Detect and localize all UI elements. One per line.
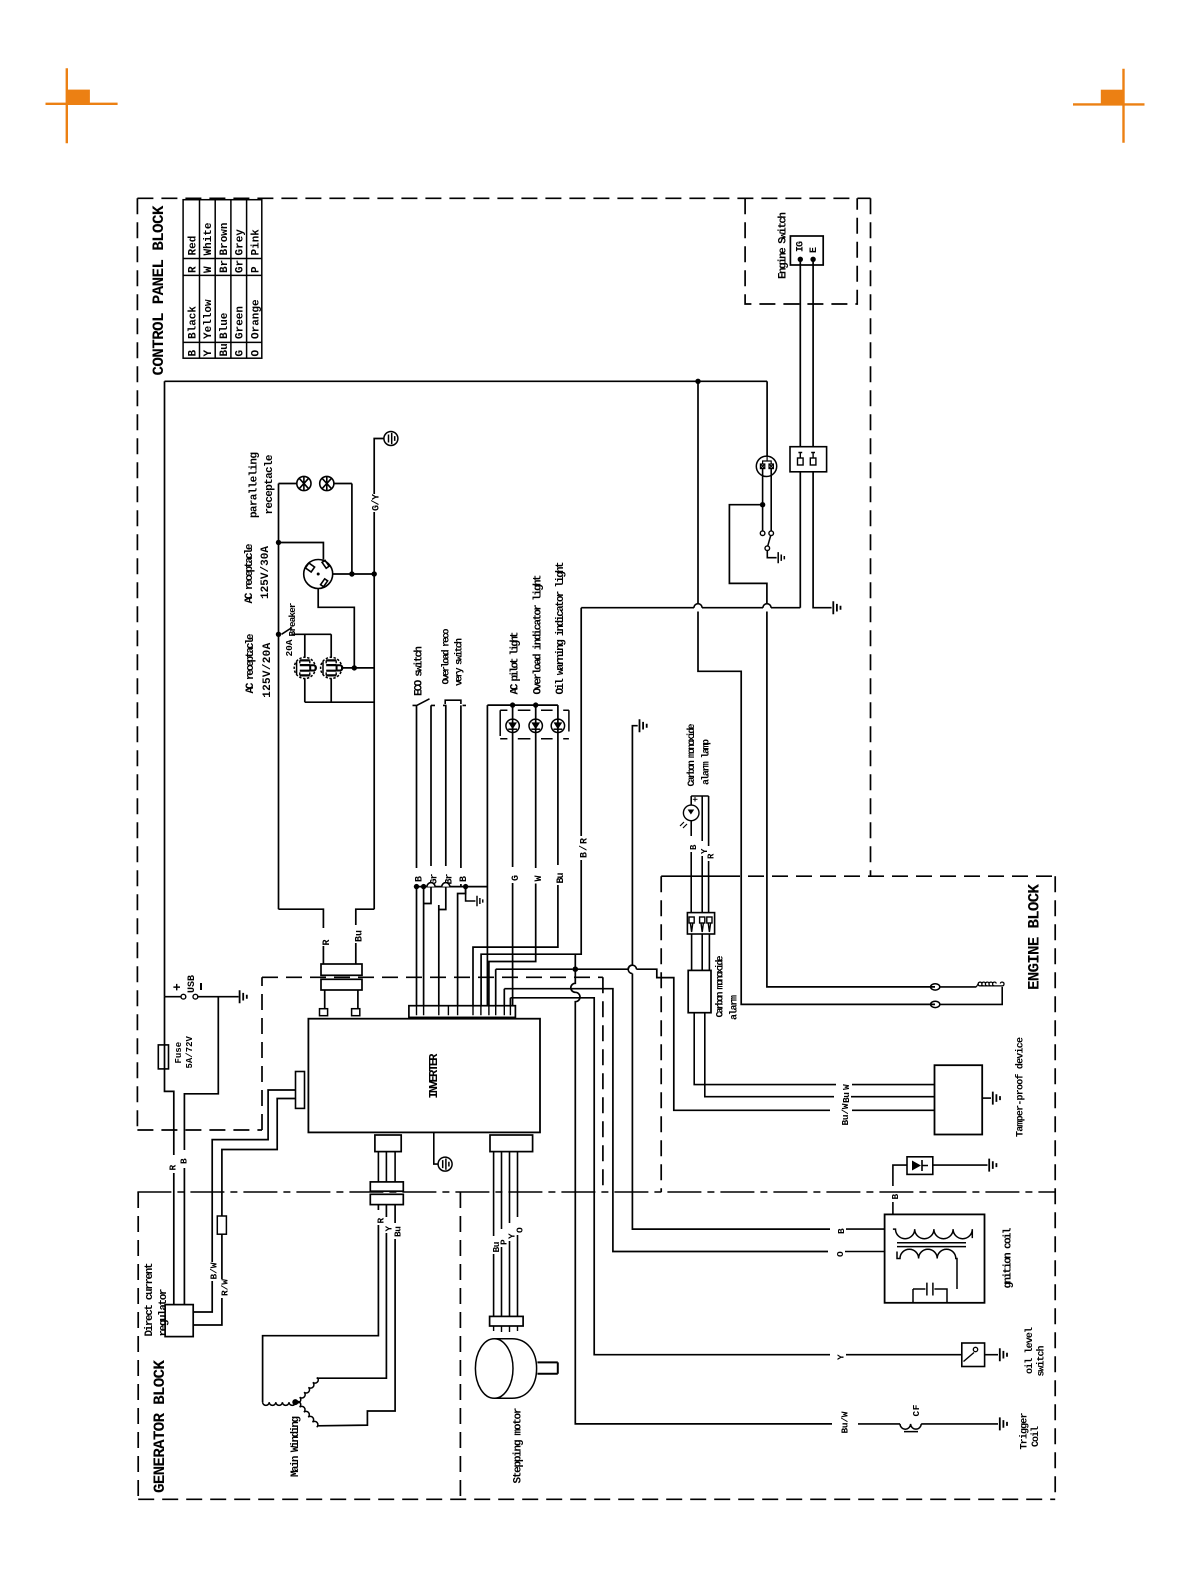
wire: stepper O lead	[517, 1152, 519, 1217]
svg-text:Yellow: Yellow	[203, 299, 215, 339]
svg-text:ENGINE BLOCK: ENGINE BLOCK	[1026, 884, 1044, 990]
wire: Bu lamp wire	[557, 705, 559, 865]
wire: overload B to bus and jog into pin	[458, 884, 466, 1006]
switch blade	[768, 536, 771, 546]
wire: W jog into pin	[489, 884, 536, 1006]
control panel block bottom-right drop border	[602, 977, 604, 1192]
wire: rail left drop to bus	[486, 705, 488, 1006]
wire: Y lead to oil level switch	[594, 1352, 830, 1355]
wire: paralleling right terminal drop	[351, 484, 353, 572]
hop: stop line over second riser	[763, 604, 771, 608]
svg-text:P: P	[250, 266, 262, 273]
wire: G into pin	[512, 883, 514, 1006]
svg-text:125V/20A: 125V/20A	[262, 642, 274, 697]
switch contact right	[769, 531, 774, 536]
control panel block right border	[870, 198, 872, 876]
CO 3-pin connector	[687, 913, 714, 934]
paralleling receptacle terminal left	[297, 476, 311, 490]
ground at oil level switch	[1000, 1348, 1007, 1361]
wire: lamp feed drop	[698, 381, 935, 1004]
wire: ECO switch left lead (B)	[416, 705, 418, 868]
svg-text:Bu/W: Bu/W	[840, 1103, 851, 1125]
svg-text:Green: Green	[235, 306, 247, 339]
svg-text:R: R	[707, 853, 717, 859]
inverter box	[308, 1019, 540, 1133]
wire: top rail corner to relay lamp	[766, 381, 768, 456]
svg-text:Blue: Blue	[219, 312, 231, 339]
wire: Bu winding lead	[394, 1205, 396, 1223]
table cell texts	[188, 222, 263, 356]
ground circle for G/Y	[384, 432, 398, 446]
node: E terminal	[810, 257, 815, 262]
wire: inner top rail	[165, 380, 768, 382]
wire: Bu/W into trigger coil	[858, 1423, 900, 1425]
svg-text:alarm: alarm	[729, 995, 741, 1020]
svg-text:Bu: Bu	[219, 343, 231, 356]
pin square left	[320, 1009, 328, 1016]
ignition coil box	[885, 1214, 985, 1302]
wire: Y winding lead lower	[317, 1233, 387, 1378]
svg-text:Pink: Pink	[250, 229, 262, 256]
connector pin 3	[707, 917, 712, 932]
svg-text:Bu: Bu	[841, 1092, 852, 1103]
wire: R/W riser to inverter tab	[222, 1099, 296, 1280]
svg-text:W: W	[841, 1084, 852, 1090]
svg-text:very switch: very switch	[454, 638, 466, 686]
svg-text:Orange: Orange	[250, 299, 262, 339]
wire: Bu winding lead lower	[318, 1239, 396, 1426]
svg-text:+: +	[170, 983, 185, 991]
ground at E	[833, 601, 840, 614]
connector pin IG	[798, 452, 804, 465]
svg-text:Main Winding: Main Winding	[290, 1416, 302, 1477]
wire: 30A right to neutral bus	[333, 573, 375, 575]
wire: lamp B lead lower	[690, 852, 692, 913]
connector pin 1	[689, 917, 694, 932]
node: bus at Gr pin wire	[421, 884, 426, 889]
wire: lamp Y lead lower	[701, 856, 703, 913]
svg-text:B: B	[836, 1228, 847, 1234]
wire: relay contact right	[770, 469, 772, 531]
hop: bus over Br wire	[442, 883, 450, 887]
svg-text:USB: USB	[187, 975, 198, 993]
inline connector lower half (R/Bu)	[321, 979, 362, 990]
wire: ECO switch right lead (Gr)	[430, 705, 432, 866]
svg-text:Red: Red	[188, 236, 200, 256]
wire: pin riser to stop-line junction	[496, 969, 573, 1006]
svg-text:White: White	[203, 222, 215, 255]
svg-text:Bu: Bu	[392, 1226, 403, 1237]
relay lamp circle	[756, 456, 776, 476]
svg-text:B: B	[179, 1158, 190, 1164]
svg-text:Overload reco: Overload reco	[441, 629, 453, 685]
bullet connector lower	[931, 1001, 940, 1007]
wire: Y pin wire east and down	[510, 998, 594, 1352]
node: bypass tap	[760, 502, 765, 507]
svg-text:R: R	[168, 1165, 179, 1171]
svg-text:Y: Y	[203, 350, 215, 357]
svg-text:Bu: Bu	[556, 873, 567, 884]
svg-text:W: W	[534, 875, 545, 881]
wire: B/W riser to inverter tab	[212, 1090, 295, 1262]
bottom border shared by generator and engine blocks	[138, 1498, 1055, 1500]
svg-text:gnition coil: gnition coil	[1003, 1227, 1015, 1288]
node: 30A joins neutral bus	[372, 571, 377, 576]
svg-text:AC receptacle: AC receptacle	[244, 543, 256, 603]
svg-text:O: O	[250, 350, 262, 357]
svg-text:receptacle: receptacle	[264, 454, 276, 514]
wire: connector pins to motor	[494, 1326, 518, 1332]
stepping motor 4-pin connector	[490, 1316, 523, 1326]
svg-text:B/W: B/W	[209, 1262, 220, 1279]
table frame	[183, 200, 262, 359]
ignition coil secondary winding	[897, 1249, 957, 1289]
svg-text:+: +	[691, 797, 701, 802]
wire: Y winding lead	[385, 1205, 387, 1217]
wire: paralleling receptacle leads	[279, 483, 352, 485]
ignition coil primary winding	[893, 1229, 972, 1239]
wire: B lead into regulator	[183, 1168, 185, 1305]
svg-text:R: R	[188, 266, 200, 273]
control panel block notch bottom border	[137, 1129, 262, 1131]
LED: AC pilot light	[506, 719, 519, 732]
wire: breaker to receptacle feeds	[293, 634, 332, 657]
coil squiggle	[976, 982, 1004, 987]
svg-text:Bu: Bu	[354, 930, 365, 942]
wire: lamp R lead lower	[708, 861, 710, 913]
svg-text:Direct current: Direct current	[144, 1263, 156, 1337]
generator block right border	[459, 1192, 461, 1499]
control panel block notch right border	[261, 977, 263, 1130]
oil level switch contact	[973, 1347, 977, 1351]
svg-text:Br: Br	[219, 260, 231, 273]
svg-text:oil level: oil level	[1024, 1327, 1036, 1374]
wire: B/R riser lower, jog into pin	[481, 860, 581, 1006]
svg-text:Coil: Coil	[1030, 1426, 1042, 1447]
black bus with ground	[417, 886, 488, 888]
main winding left coil	[263, 1402, 296, 1405]
table column lines	[183, 259, 262, 343]
bullet connector upper	[931, 984, 940, 990]
generator block left border	[137, 1192, 139, 1499]
svg-text:B: B	[890, 1194, 901, 1200]
svg-text:B: B	[459, 876, 470, 882]
hop: B wire over stop-line extension	[628, 965, 632, 974]
wire: B lamp wire from ground to ignition coil	[632, 726, 830, 1229]
svg-text:R: R	[376, 1218, 387, 1224]
switch pivot contact	[765, 546, 770, 551]
wire: O lead to ignition coil	[613, 1249, 828, 1252]
paralleling receptacle terminal right	[320, 476, 334, 490]
ignition capacitor	[913, 1283, 947, 1303]
svg-text:alarm lamp: alarm lamp	[701, 739, 713, 785]
wire: USB + feed	[165, 996, 182, 998]
hop: Bu/W line over B lamp wire	[628, 965, 636, 969]
direct current regulator box	[165, 1305, 193, 1337]
wire: lamp R lead	[708, 796, 710, 846]
table row lines	[200, 200, 247, 359]
registration mark right: orange square	[1101, 90, 1124, 105]
inline connector lower half (winding)	[370, 1194, 403, 1204]
ECO switch symbol	[413, 699, 436, 706]
wire: tamper-proof ground lead	[982, 1097, 991, 1099]
wire: 30A bottom lead	[318, 589, 354, 668]
svg-text:regulator: regulator	[158, 1289, 170, 1337]
diode box	[907, 1157, 933, 1175]
svg-text:Y: Y	[836, 1354, 847, 1360]
svg-text:W: W	[203, 266, 215, 273]
node: IG terminal	[798, 257, 803, 262]
overload switch bridge contact	[443, 700, 466, 705]
wire: regulator to R/W riser	[193, 1298, 222, 1325]
node: bus at ECO B	[414, 884, 419, 889]
wire: G/Y lead	[374, 439, 384, 495]
hop: bus over Gr wire	[427, 883, 435, 887]
diode symbol	[912, 1161, 921, 1171]
control panel block top border	[137, 197, 870, 199]
svg-text:Trigger: Trigger	[1019, 1413, 1031, 1450]
node: hot bus at breaker	[276, 632, 281, 637]
wire: bypass loop	[729, 505, 935, 987]
inverter bottom-right connector block	[490, 1135, 533, 1152]
wire: Bu jog into pin	[473, 885, 558, 1006]
wire: outlets bottom bus	[305, 679, 374, 703]
svg-text:B: B	[188, 350, 200, 357]
wire: stepper Bu lead	[493, 1152, 495, 1236]
node: paralleling drop joins	[349, 571, 354, 576]
hop: stop line over first riser	[694, 604, 702, 608]
lamp frame around lights	[500, 710, 569, 739]
wire: junction down with weave	[571, 969, 580, 1420]
svg-text:B: B	[689, 844, 699, 850]
node: overload light tap	[533, 702, 538, 707]
main winding star node	[292, 1399, 298, 1405]
wire: neutral bus right (Bu / G-Y riser)	[373, 512, 375, 909]
svg-text:Carbon monoxide: Carbon monoxide	[715, 956, 727, 1018]
wire: switch to ground	[985, 1354, 998, 1356]
wire: USB - lead to ground and down	[184, 997, 238, 1150]
indicator light top rail	[487, 704, 558, 706]
wire: stepper P lead lower	[501, 1247, 503, 1316]
wire: Bu/W lead to trigger coil	[575, 1420, 832, 1424]
engine block right border	[1054, 876, 1056, 1499]
svg-text:Fuse: Fuse	[174, 1042, 184, 1064]
wire: ECO B into pin	[416, 884, 418, 1006]
inverter bottom-left connector block	[375, 1135, 401, 1152]
node: link joins neutral bus	[352, 665, 357, 670]
svg-text:Y: Y	[700, 848, 710, 854]
inverter top multi-pin connector	[409, 1006, 516, 1018]
wire: module W lead to tamper-proof	[694, 1013, 836, 1085]
wire: connector to pin squares	[325, 990, 358, 1009]
svg-text:O: O	[515, 1227, 526, 1233]
ground circle at inverter	[438, 1157, 452, 1171]
wire: Y lead into switch box	[846, 1354, 962, 1356]
wire: B lead into ignition coil	[846, 1228, 885, 1230]
wire: R/Bu leads into connector	[323, 943, 355, 964]
wire: module Bu lead to tamper-proof	[705, 1013, 834, 1097]
svg-text:G: G	[511, 875, 522, 881]
ground at USB minus	[240, 990, 247, 1003]
pin square right	[352, 1009, 360, 1016]
USB terminal -	[193, 994, 198, 999]
svg-text:20A: 20A	[284, 639, 295, 656]
oil level switch blade	[964, 1353, 975, 1362]
engine block top border	[724, 875, 1055, 877]
wire: Gr jog into pin	[424, 886, 431, 1006]
svg-text:G/Y: G/Y	[371, 494, 383, 511]
inline connector upper half (winding)	[370, 1182, 403, 1191]
wire: 30A receptacle feed	[279, 543, 324, 560]
node: top rail to lamp feed	[695, 379, 700, 384]
wire: diode branch to diode box	[893, 1165, 907, 1186]
svg-text:CF: CF	[911, 1404, 922, 1416]
carbon monoxide alarm module	[688, 970, 711, 1012]
main winding upper-right coil	[295, 1377, 319, 1404]
engine switch dashed enclosure	[745, 198, 857, 304]
wire: switch to ground	[767, 551, 776, 558]
wire: stepper Y lead lower	[509, 1241, 511, 1316]
wire: neutral bus bottom corner to Bu drop	[356, 909, 374, 925]
stepping motor body	[494, 1339, 536, 1399]
svg-text:Overload indicator light: Overload indicator light	[532, 575, 544, 695]
connector pin E	[810, 452, 816, 465]
svg-text:R: R	[322, 939, 333, 945]
wire: Br jog into pin	[439, 886, 446, 1006]
ground at tamper-proof	[993, 1092, 1000, 1105]
node: hot bus to 30A feed	[276, 540, 281, 545]
wire: junction east to engine block (Bu/W)	[578, 969, 830, 1110]
wire: lamp B lead	[690, 796, 692, 836]
wire: O pin wire east and down	[504, 989, 613, 1249]
wire: regulator to B/W riser	[193, 1281, 212, 1312]
svg-text:IG: IG	[796, 241, 807, 252]
stepping motor end cap	[475, 1339, 513, 1399]
wire: upper bullet to coil loop	[940, 986, 977, 988]
svg-text:switch: switch	[1036, 1346, 1048, 1377]
wire: stepper O lead lower	[517, 1235, 519, 1316]
wire: IG lead	[799, 259, 801, 607]
registration mark left: orange square	[67, 90, 90, 104]
wire: overload switch right lead (B)	[460, 705, 462, 868]
svg-text:125V/30A: 125V/30A	[260, 546, 272, 599]
wire: O lead into ignition coil	[845, 1251, 885, 1253]
svg-text:Stepping motor: Stepping motor	[513, 1408, 525, 1484]
node: bus at overload B	[463, 884, 468, 889]
svg-text:5A/72V: 5A/72V	[185, 1035, 195, 1068]
control panel block bottom border	[262, 976, 603, 978]
svg-text:Tamper-proof device: Tamper-proof device	[1015, 1037, 1027, 1137]
ignition coil core	[897, 1243, 966, 1247]
svg-text:GENERATOR BLOCK: GENERATOR BLOCK	[151, 1360, 169, 1493]
svg-text:Carbon monoxide: Carbon monoxide	[686, 724, 698, 787]
connector pin 2	[700, 917, 705, 932]
ground at relay switch	[778, 552, 784, 563]
node: AC pilot light tap	[510, 702, 515, 707]
wire: trigger coil to ground	[921, 1423, 998, 1425]
svg-text:B/R: B/R	[578, 838, 590, 858]
engine block left border	[660, 876, 662, 1192]
svg-text:B: B	[415, 876, 426, 882]
chain separator line between blocks	[137, 1191, 1055, 1193]
AC receptacle 125V/30A body	[304, 560, 333, 589]
wire: Bu/W lead into tamper-proof	[852, 1109, 935, 1111]
wire: right outlet link to neutral bus	[342, 667, 374, 669]
wire: left rail down to USB +	[164, 381, 166, 996]
svg-text:E: E	[809, 247, 820, 253]
ground at bus	[477, 896, 483, 906]
wire: winding leads to inline connector	[378, 1152, 395, 1182]
wire: connector to CO module	[692, 934, 710, 970]
wire: stepper Y lead	[509, 1152, 511, 1223]
wire: fuse branch below +	[165, 997, 174, 1155]
breaker blade	[282, 628, 293, 635]
LED: overload indicator light	[529, 719, 542, 732]
inverter left tab connector	[296, 1072, 305, 1109]
wire: R lead into regulator	[173, 1173, 175, 1305]
svg-text:Oil warning indicator light: Oil warning indicator light	[555, 562, 567, 695]
wire: Bu lead into tamper-proof	[851, 1096, 935, 1098]
svg-text:Bu/W: Bu/W	[840, 1411, 851, 1433]
svg-text:O: O	[835, 1251, 846, 1257]
trigger coil symbol	[900, 1424, 921, 1432]
registration mark left: cross	[46, 68, 118, 143]
svg-text:Grey: Grey	[235, 229, 247, 256]
wire: W lamp wire	[535, 705, 537, 868]
registration mark right: cross	[1073, 69, 1145, 143]
wire: junction tap up to B/R	[574, 954, 576, 969]
svg-text:CONTROL PANEL BLOCK: CONTROL PANEL BLOCK	[150, 205, 168, 375]
CO alarm lamp	[680, 805, 699, 828]
control panel block left border	[136, 198, 138, 1130]
wire: inverter bottom ground lead	[434, 1132, 438, 1164]
CO lamp frame	[691, 795, 708, 797]
stepping motor shaft	[537, 1362, 557, 1373]
engine switch connector box	[790, 447, 827, 472]
ground at B lamp wire top	[640, 719, 647, 732]
wire: G lamp wire	[512, 705, 514, 867]
svg-text:Engine Switch: Engine Switch	[778, 212, 790, 279]
wire: relay contact left	[762, 469, 764, 531]
ground at diode	[989, 1159, 996, 1172]
svg-text:Breaker: Breaker	[287, 602, 298, 636]
wire: hot bus bottom corner to R drop	[279, 909, 324, 928]
wire: bus ground branch	[466, 887, 476, 901]
main winding lower-right coil	[295, 1400, 319, 1427]
wire: W lead into tamper-proof	[852, 1084, 935, 1086]
svg-text:R/W: R/W	[220, 1279, 231, 1296]
svg-text:AC receptacle: AC receptacle	[245, 633, 257, 693]
node: stop line junction	[573, 966, 579, 972]
wire: hot bus left (R)	[278, 484, 280, 910]
ground at trigger coil	[1000, 1417, 1007, 1430]
connector on R/W wire	[217, 1216, 226, 1234]
connector pin stubs	[417, 1006, 511, 1016]
wire: stepper Bu lead lower	[493, 1254, 495, 1316]
switch contact left	[760, 531, 765, 536]
LED: oil warning indicator light	[551, 719, 564, 732]
wire: stop line to IG	[581, 607, 800, 609]
AC receptacle 20A outlet right	[321, 657, 343, 678]
svg-text:Black: Black	[188, 306, 200, 339]
inline connector upper half (R/Bu)	[321, 964, 362, 975]
wire: B/R riser upper	[580, 608, 582, 836]
wire: diode branch riser	[892, 1202, 894, 1214]
wire: R winding lead lower	[263, 1225, 379, 1402]
wire: overload switch left lead (Br)	[445, 705, 447, 866]
label -	[200, 983, 202, 990]
oil level switch box	[962, 1343, 985, 1367]
